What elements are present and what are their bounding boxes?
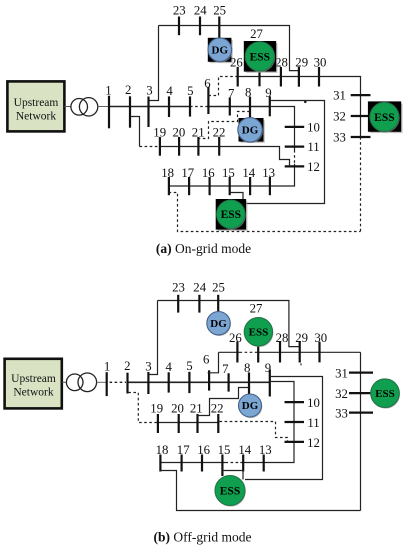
svg-text:33: 33 xyxy=(333,131,346,145)
wire: open tie 33-18 vertical dashed (a) xyxy=(360,137,362,232)
bus 8 tick (a) xyxy=(249,97,251,118)
wire: open tie 18-33 dashed (a) xyxy=(169,193,361,232)
bus 12 tick (a) xyxy=(285,165,305,167)
wire: branch line 26-30 (a) xyxy=(238,77,361,138)
transformer T1 (a) xyxy=(71,98,98,116)
svg-text:11: 11 xyxy=(307,416,319,430)
svg-text:1: 1 xyxy=(104,360,110,374)
bus 31 tick (b) xyxy=(349,372,373,374)
wire: feeder 9 to 12 to bottom row (b) xyxy=(240,382,294,463)
svg-text:15: 15 xyxy=(218,443,231,457)
bus 20 tick (a) xyxy=(178,137,180,156)
wire: tie bus 9 to ESS15 (a) xyxy=(246,101,324,204)
transformer T1 (b) xyxy=(66,373,96,392)
bus 3 tick (b) xyxy=(147,372,149,394)
bus 11 tick (a) xyxy=(285,146,305,148)
bus 5 tick (a) xyxy=(189,96,191,116)
bus 10 tick (b) xyxy=(285,401,305,403)
wire: open section 1-2 dashed (b) xyxy=(110,381,127,383)
svg-text:16: 16 xyxy=(202,166,215,180)
ESS unit at bus 32 (b) xyxy=(371,379,400,409)
bus 14 tick (a) xyxy=(249,177,251,195)
svg-text:13: 13 xyxy=(259,443,272,457)
svg-text:4: 4 xyxy=(165,360,172,374)
svg-text:28: 28 xyxy=(276,331,289,345)
bus 4 tick (b) xyxy=(168,372,170,392)
svg-text:DG: DG xyxy=(212,44,229,56)
svg-text:6: 6 xyxy=(203,352,210,366)
bus 18 tick (a) xyxy=(168,177,170,195)
bus 19 tick (a) xyxy=(159,137,161,156)
svg-text:17: 17 xyxy=(177,443,190,457)
svg-text:29: 29 xyxy=(295,55,308,69)
ESS unit at bus 15 (b) xyxy=(215,476,246,507)
bus 14 tick (b) xyxy=(242,455,244,472)
svg-text:ESS: ESS xyxy=(250,51,270,63)
svg-text:9: 9 xyxy=(265,86,271,100)
wire: riser bus3 to branch 23-25 (b) xyxy=(149,301,158,375)
svg-text:14: 14 xyxy=(238,443,251,457)
upstream network box (b) xyxy=(5,359,62,409)
bus 24 tick (a) xyxy=(199,17,201,36)
svg-text:1: 1 xyxy=(105,83,111,97)
svg-text:10: 10 xyxy=(307,120,320,134)
bus 28 tick (a) xyxy=(280,67,282,87)
bus 3 tick (a) xyxy=(147,97,149,128)
wire: open section 5-6 dashed (a) xyxy=(190,106,208,108)
bus 10 tick (a) xyxy=(285,126,305,128)
bus 22 tick (b) xyxy=(217,414,219,433)
wire: box to transformer (b) xyxy=(62,381,67,383)
wire: open section 15-14 dashed (b) xyxy=(225,462,240,464)
wire: section 12 to bottom row (a) xyxy=(169,164,295,186)
svg-text:20: 20 xyxy=(173,126,186,140)
bus 33 tick (b) xyxy=(349,412,373,414)
svg-text:31: 31 xyxy=(333,89,346,103)
svg-text:12: 12 xyxy=(307,436,320,450)
wire: drop from bus 2 to branch 19 (a) xyxy=(130,117,140,147)
svg-text:13: 13 xyxy=(262,166,275,180)
bus 9 tick (b) xyxy=(269,370,271,397)
svg-text:3: 3 xyxy=(145,359,151,373)
wire: riser bus3 to branch 23-25 (a) xyxy=(149,26,158,101)
bus 29 tick (a) xyxy=(298,67,300,87)
bus 33 tick (a) xyxy=(351,136,371,138)
bus 7 tick (b) xyxy=(228,373,230,391)
svg-text:21: 21 xyxy=(190,401,203,415)
svg-text:7: 7 xyxy=(228,86,235,100)
bus 27 tick (b) xyxy=(257,346,259,363)
wire: box to transformer (a) xyxy=(65,106,72,108)
junction dot near bus 9 (b) xyxy=(300,363,302,365)
svg-text:12: 12 xyxy=(307,160,320,174)
svg-text:DG: DG xyxy=(210,318,227,330)
bus 27 tick (a) xyxy=(258,72,260,87)
svg-text:ESS: ESS xyxy=(220,485,240,497)
svg-text:10: 10 xyxy=(307,396,320,410)
bus 23 tick (b) xyxy=(177,295,179,313)
bus 20 tick (b) xyxy=(178,414,180,433)
wire: right bus 30 to 33 to bottom (b) xyxy=(360,352,362,510)
wire: open tie 22-12 dashed (b) xyxy=(220,422,288,442)
bus 30 tick (a) xyxy=(318,67,320,87)
svg-text:31: 31 xyxy=(335,367,348,381)
svg-text:7: 7 xyxy=(222,362,229,376)
bus 25 tick (b) xyxy=(217,295,219,313)
junction dot near bus 9 (a) xyxy=(304,101,307,104)
svg-text:19: 19 xyxy=(150,401,163,415)
svg-text:21: 21 xyxy=(192,126,205,140)
svg-text:2: 2 xyxy=(125,83,131,97)
DG unit at bus 8 (b) xyxy=(239,394,263,418)
upstream network box (a) xyxy=(7,81,64,131)
bus 18 tick (b) xyxy=(159,455,161,472)
svg-text:8: 8 xyxy=(244,361,250,375)
wire: branch line 23-25 and tie to 29 (a) xyxy=(159,26,299,71)
bus 26 tick (b) xyxy=(236,342,238,363)
wire: open tie 8-21 dashed (a) xyxy=(198,112,249,139)
ESS unit at bus 15 (a) xyxy=(216,199,248,231)
wire: open tie 6-26 dashed (a) xyxy=(208,77,237,96)
wire: tie 18-33 closed (b) xyxy=(160,471,360,511)
wire: transformer to bus 1 (b) xyxy=(97,381,107,383)
wire: transformer to bus 1 (a) xyxy=(98,106,109,108)
bus 23 tick (a) xyxy=(178,17,180,36)
svg-text:DG: DG xyxy=(242,400,259,412)
svg-text:23: 23 xyxy=(172,281,185,295)
svg-text:24: 24 xyxy=(194,3,207,17)
wire: feeder 9 to 10 (a) xyxy=(270,107,295,151)
svg-text:18: 18 xyxy=(161,166,174,180)
bus 30 tick (b) xyxy=(318,342,320,363)
svg-text:18: 18 xyxy=(156,443,169,457)
wire: open link into bus 19 dashed (a) xyxy=(140,146,160,148)
svg-text:Network: Network xyxy=(16,111,56,123)
svg-text:14: 14 xyxy=(242,166,255,180)
wire: branch line 19-22 and tie 22-12 (a) xyxy=(160,147,290,167)
svg-text:Network: Network xyxy=(13,387,53,399)
svg-text:DG: DG xyxy=(242,125,259,137)
bus 26 tick (a) xyxy=(237,67,239,87)
bus 16 tick (a) xyxy=(209,177,211,195)
bus 22 tick (a) xyxy=(218,137,220,156)
svg-text:23: 23 xyxy=(173,3,186,17)
svg-text:22: 22 xyxy=(213,126,226,140)
svg-text:8: 8 xyxy=(245,85,251,99)
svg-text:(b) Off-grid mode: (b) Off-grid mode xyxy=(154,530,252,545)
wire: open section 11-12 dashed (a) xyxy=(294,150,296,164)
bus 9 tick (a) xyxy=(269,96,271,116)
wire: elbow bus 15 to ESS wire (b) xyxy=(222,471,243,480)
svg-text:25: 25 xyxy=(213,3,226,17)
wire: open section 26-27 dashed (b) xyxy=(240,351,258,353)
bus 12 tick (b) xyxy=(285,441,305,443)
bus 21 tick (a) xyxy=(197,137,199,156)
svg-text:30: 30 xyxy=(314,331,327,345)
DG unit at bus 8 (a) xyxy=(238,118,265,143)
wire: branch line 19-22 (b) xyxy=(158,422,218,424)
svg-text:6: 6 xyxy=(204,76,211,90)
svg-text:16: 16 xyxy=(197,443,210,457)
svg-text:(a) On-grid mode: (a) On-grid mode xyxy=(156,241,251,256)
wire: elbow bus 15 to ESS (a) xyxy=(230,193,243,200)
bus 19 tick (b) xyxy=(157,414,159,433)
bus 31 tick (a) xyxy=(351,94,371,96)
bus 5 tick (b) xyxy=(188,372,190,393)
wire: open drop bus 2 to 19 dashed (b) xyxy=(128,393,158,423)
bus 25 tick (a) xyxy=(218,17,220,38)
bus 15 tick (b) xyxy=(221,455,223,472)
wire: feeder buses 2-9 (b) xyxy=(128,381,270,383)
DG unit at bus 25 (a) xyxy=(208,38,233,63)
ESS unit at bus 32 (a) xyxy=(368,101,403,133)
wire: bottom row 18-15 (b) xyxy=(160,462,225,464)
bus 4 tick (a) xyxy=(168,96,170,117)
svg-text:22: 22 xyxy=(211,401,224,415)
bus 32 tick (b) xyxy=(349,392,373,394)
ESS unit at bus 27 (a) xyxy=(244,41,278,73)
svg-text:32: 32 xyxy=(333,110,346,124)
bus 13 tick (a) xyxy=(269,177,271,195)
svg-text:33: 33 xyxy=(335,407,348,421)
svg-text:30: 30 xyxy=(314,55,327,69)
svg-text:26: 26 xyxy=(230,55,243,69)
svg-text:32: 32 xyxy=(335,387,348,401)
svg-text:Upstream: Upstream xyxy=(14,97,59,109)
svg-text:ESS: ESS xyxy=(249,327,269,339)
wire: branch line 26 left segment (b) xyxy=(219,351,240,353)
svg-text:25: 25 xyxy=(212,281,225,295)
bus 29 tick (b) xyxy=(299,342,301,363)
bus 17 tick (a) xyxy=(188,177,190,195)
bus 2 tick (b) xyxy=(126,373,128,394)
bus 7 tick (a) xyxy=(229,98,231,116)
svg-text:27: 27 xyxy=(250,302,263,316)
bus 15 stem into ESS (b) xyxy=(221,472,223,477)
svg-text:9: 9 xyxy=(265,361,271,375)
svg-text:Upstream: Upstream xyxy=(11,373,56,385)
svg-text:5: 5 xyxy=(187,84,193,98)
DG unit at bus 25 (b) xyxy=(207,312,231,336)
bus 24 tick (b) xyxy=(198,295,200,313)
svg-text:20: 20 xyxy=(171,401,184,415)
wire: tie 8-21 closed (b) xyxy=(198,388,251,416)
bus 6 tick (a) xyxy=(207,87,209,114)
svg-text:4: 4 xyxy=(166,84,173,98)
bus 15 tick (a) xyxy=(229,177,231,195)
svg-text:2: 2 xyxy=(124,359,130,373)
svg-text:29: 29 xyxy=(295,331,308,345)
wire: feeder buses 6-9 (a) xyxy=(208,106,269,108)
svg-text:27: 27 xyxy=(250,27,263,41)
wire: feeder buses 1-5 (a) xyxy=(109,106,190,108)
bus 8 tick (b) xyxy=(248,373,250,395)
bus 13 tick (b) xyxy=(263,455,265,472)
svg-text:26: 26 xyxy=(229,331,242,345)
bus 11 tick (b) xyxy=(285,421,305,423)
ESS unit at bus 27 (b) xyxy=(244,318,273,348)
bus 16 tick (b) xyxy=(201,455,203,472)
bus 32 tick (a) xyxy=(351,115,371,117)
bus 2 tick (a) xyxy=(129,96,131,127)
bus 1 tick (a) xyxy=(108,96,110,129)
wire: branch line 23-25 and tie to 29 (b) xyxy=(158,301,300,347)
bus 17 tick (b) xyxy=(181,455,183,472)
svg-text:3: 3 xyxy=(146,83,152,97)
svg-text:ESS: ESS xyxy=(374,112,394,124)
wire: branch line 27-30 (b) xyxy=(258,351,361,353)
wire: tie bus 9 to ESS15 (b) xyxy=(245,377,323,480)
svg-text:5: 5 xyxy=(186,359,192,373)
bus 28 tick (b) xyxy=(279,342,281,363)
svg-text:24: 24 xyxy=(193,281,206,295)
svg-text:17: 17 xyxy=(181,166,194,180)
wire: riser 6-26 (b) xyxy=(208,352,219,373)
svg-text:ESS: ESS xyxy=(221,209,241,221)
svg-text:11: 11 xyxy=(307,140,319,154)
svg-text:ESS: ESS xyxy=(375,388,395,400)
svg-text:15: 15 xyxy=(222,166,235,180)
bus 1 tick (b) xyxy=(106,372,108,396)
svg-text:19: 19 xyxy=(153,126,166,140)
bus 6 tick (b) xyxy=(208,370,210,390)
bus 21 tick (b) xyxy=(196,414,198,433)
